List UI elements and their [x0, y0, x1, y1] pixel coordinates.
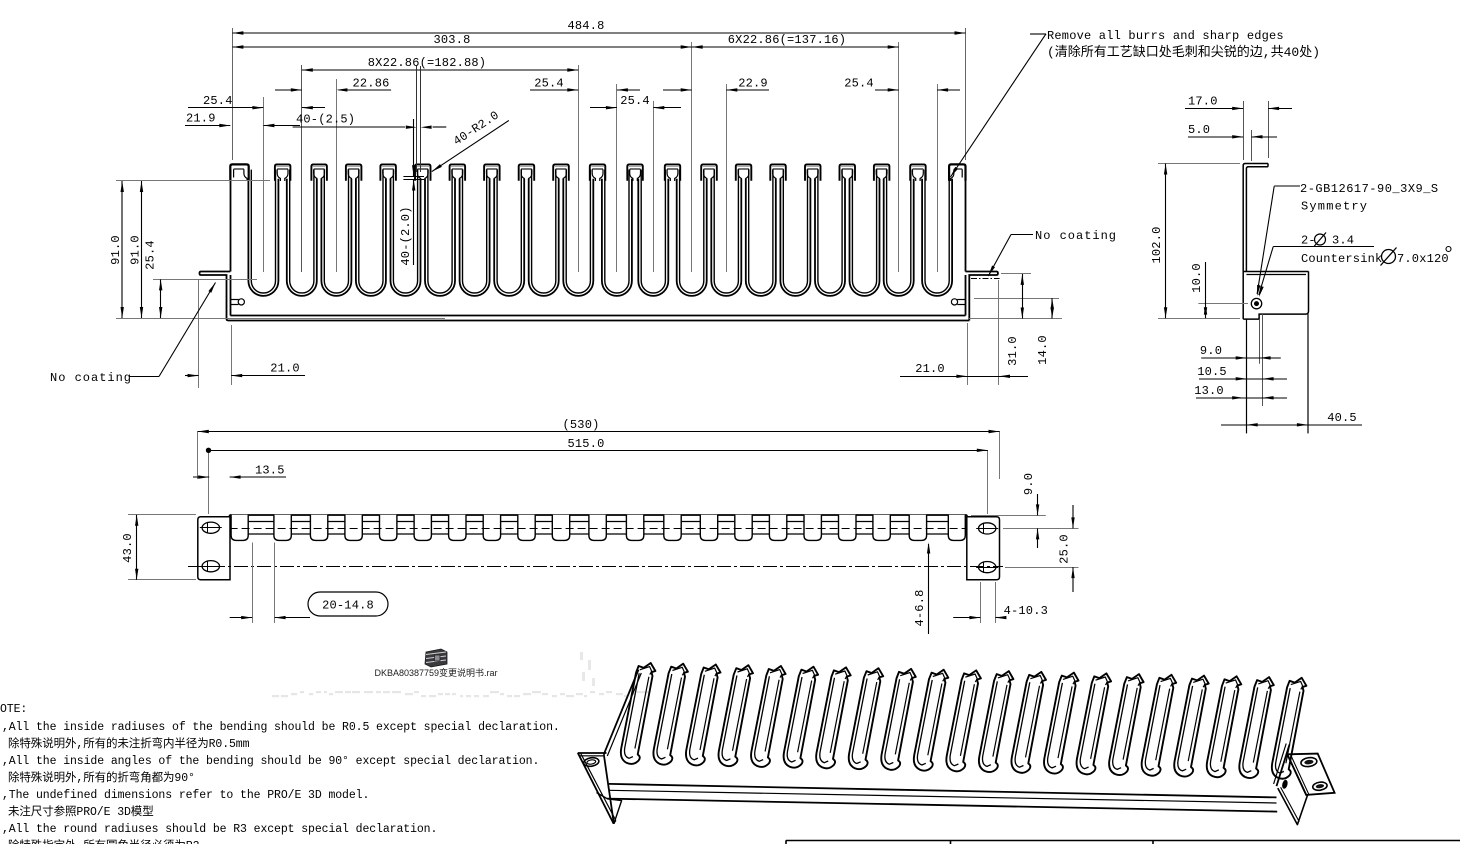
svg-text:3.4: 3.4 [1332, 234, 1354, 248]
svg-text:40-(2.5): 40-(2.5) [296, 113, 355, 127]
svg-text:7.0x120: 7.0x120 [1397, 252, 1449, 266]
svg-text:9.0: 9.0 [1200, 344, 1222, 358]
svg-text:,The undefined dimensions refe: ,The undefined dimensions refer to the P… [2, 789, 369, 802]
svg-text:6X22.86(=137.16): 6X22.86(=137.16) [728, 33, 846, 47]
svg-text:303.8: 303.8 [433, 33, 470, 47]
svg-text:2-GB12617-90_3X9_S: 2-GB12617-90_3X9_S [1300, 182, 1439, 196]
svg-text:10.5: 10.5 [1197, 365, 1227, 379]
svg-text:21.0: 21.0 [915, 362, 945, 376]
svg-text:OTE:: OTE: [0, 703, 27, 716]
svg-text:No coating: No coating [50, 371, 132, 385]
svg-text:4-6.8: 4-6.8 [913, 589, 927, 626]
svg-text:9.0: 9.0 [1022, 473, 1036, 495]
svg-text:13.0: 13.0 [1194, 384, 1224, 398]
svg-text:4-10.3: 4-10.3 [1004, 604, 1048, 618]
svg-text:25.4: 25.4 [620, 94, 650, 108]
svg-text:102.0: 102.0 [1150, 226, 1164, 263]
svg-text:20-14.8: 20-14.8 [322, 599, 374, 613]
svg-text:除特殊说明外,所有的未注折弯内半径为R0.5mm: 除特殊说明外,所有的未注折弯内半径为R0.5mm [8, 736, 250, 751]
svg-text:2-: 2- [1301, 234, 1316, 248]
svg-text:13.5: 13.5 [255, 464, 285, 478]
svg-text:40.5: 40.5 [1327, 411, 1357, 425]
svg-text:43.0: 43.0 [121, 533, 135, 563]
svg-text:17.0: 17.0 [1188, 95, 1218, 109]
svg-text:,All the inside radiuses of th: ,All the inside radiuses of the bending … [2, 721, 560, 734]
svg-text:21.9: 21.9 [186, 112, 216, 126]
svg-text:25.4: 25.4 [203, 94, 233, 108]
svg-text:31.0: 31.0 [1006, 336, 1020, 366]
svg-text:10.0: 10.0 [1190, 263, 1204, 293]
svg-text:14.0: 14.0 [1036, 335, 1050, 365]
svg-text:22.86: 22.86 [352, 77, 389, 91]
svg-text:DKBA80387759变更说明书.rar: DKBA80387759变更说明书.rar [374, 667, 497, 678]
svg-text:Remove all burrs and sharp edg: Remove all burrs and sharp edges [1047, 29, 1284, 43]
svg-text:5.0: 5.0 [1188, 123, 1210, 137]
svg-text:8X22.86(=182.88): 8X22.86(=182.88) [368, 56, 486, 70]
svg-text:91.0: 91.0 [128, 235, 142, 265]
svg-text:,All the inside angles of the: ,All the inside angles of the bending sh… [2, 755, 539, 768]
svg-text:(清除所有工艺缺口处毛刺和尖锐的边,共40处): (清除所有工艺缺口处毛刺和尖锐的边,共40处) [1047, 44, 1320, 60]
svg-text:,All the round radiuses should: ,All the round radiuses should be R3 exc… [2, 823, 437, 836]
svg-text:21.0: 21.0 [270, 362, 300, 376]
svg-text:40-(2.0): 40-(2.0) [399, 206, 413, 265]
svg-text:Symmetry: Symmetry [1301, 200, 1368, 214]
svg-text:No coating: No coating [1035, 229, 1117, 243]
svg-text:22.9: 22.9 [738, 77, 768, 91]
svg-text:25.4: 25.4 [534, 77, 564, 91]
svg-text:91.0: 91.0 [109, 235, 123, 265]
svg-text:25.4: 25.4 [144, 240, 158, 270]
svg-text:515.0: 515.0 [567, 437, 604, 451]
svg-text:484.8: 484.8 [567, 19, 604, 33]
svg-text:Countersink: Countersink [1301, 252, 1382, 266]
svg-text:除特殊说明外,所有的折弯角都为90°: 除特殊说明外,所有的折弯角都为90° [8, 770, 195, 785]
svg-text:25.0: 25.0 [1058, 534, 1072, 564]
svg-text:(530): (530) [562, 418, 599, 432]
svg-text:25.4: 25.4 [844, 77, 874, 91]
svg-text:未注尺寸参照PRO/E 3D模型: 未注尺寸参照PRO/E 3D模型 [8, 804, 154, 819]
svg-text:除特殊指定外,所有圆角半径必须为R3: 除特殊指定外,所有圆角半径必须为R3 [8, 838, 200, 844]
